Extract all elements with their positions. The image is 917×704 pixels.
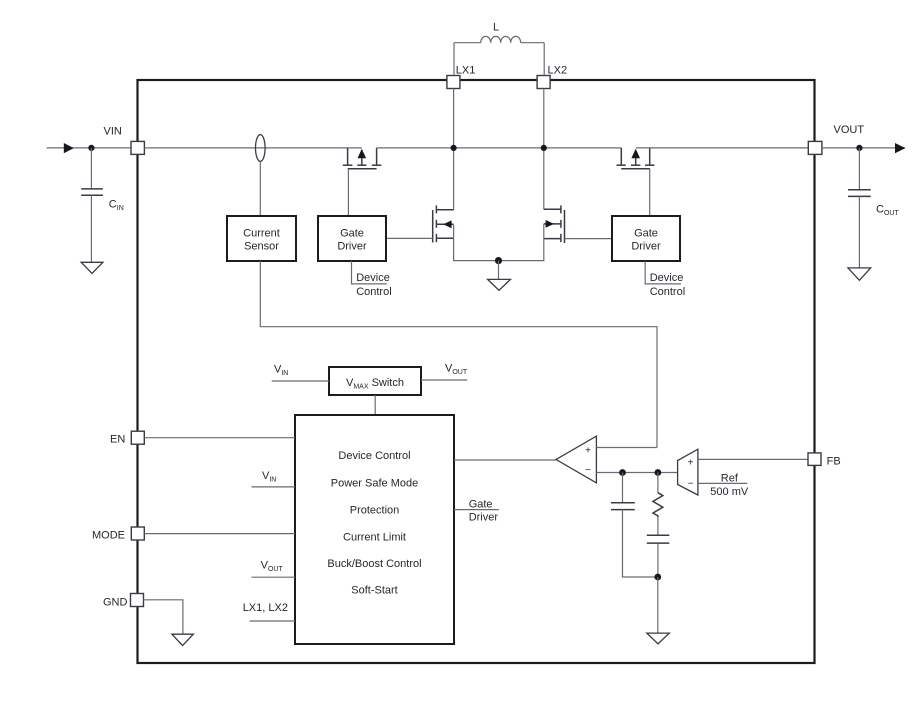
- svg-text:−: −: [688, 479, 694, 490]
- wire M3 gate to driver: [565, 238, 613, 240]
- svg-text:Buck/Boost Control: Buck/Boost Control: [327, 558, 421, 570]
- svg-text:L: L: [493, 22, 499, 34]
- node VOUT junction: [856, 145, 862, 151]
- wire main rail left segment: [144, 147, 361, 149]
- net VOUT to block: [251, 560, 295, 578]
- vmax switch U4: [329, 367, 421, 395]
- gate driver U3 right: [612, 216, 680, 261]
- svg-text:Driver: Driver: [469, 512, 499, 524]
- wire FB to reference amp: [698, 458, 808, 460]
- wire vmax to control block: [374, 395, 376, 415]
- svg-text:Ref: Ref: [721, 473, 739, 485]
- svg-text:Gate: Gate: [634, 228, 658, 240]
- wire LX1 drop: [453, 89, 455, 210]
- op-amp A2 reference: [678, 449, 698, 495]
- svg-text:Control: Control: [650, 286, 685, 298]
- wire MODE to block: [144, 533, 295, 535]
- pin LX2: [537, 76, 550, 89]
- wire M3 source down: [499, 224, 544, 261]
- transistor M1 high-side left: [343, 148, 382, 169]
- pin FB: [808, 453, 821, 466]
- wire rail right segment: [636, 147, 809, 149]
- svg-text:MODE: MODE: [92, 530, 125, 542]
- capacitor C1 comp: [611, 473, 658, 578]
- svg-text:Driver: Driver: [337, 241, 367, 253]
- wire VOUT output line: [822, 147, 905, 149]
- wire M2 source down: [454, 224, 499, 260]
- wire comp to ground: [657, 577, 659, 633]
- svg-text:Gate: Gate: [340, 228, 364, 240]
- ground CIN: [81, 262, 103, 273]
- pin VIN: [131, 141, 144, 154]
- svg-text:Current: Current: [243, 228, 280, 240]
- svg-text:Device: Device: [356, 272, 390, 284]
- net Gate Driver stub: [454, 498, 499, 523]
- svg-text:Device: Device: [650, 272, 684, 284]
- capacitor COUT: [848, 148, 899, 268]
- transistor M4 high-side right: [617, 148, 655, 169]
- svg-text:FB: FB: [827, 456, 841, 468]
- net VIN to block: [251, 470, 295, 487]
- node LX2 rail junction: [541, 145, 547, 151]
- svg-text:LX2: LX2: [548, 65, 568, 77]
- svg-text:Driver: Driver: [631, 241, 661, 253]
- control block U5: [295, 415, 454, 644]
- wire rail mid segment: [377, 147, 622, 149]
- net VOUT from vmax: [421, 363, 468, 381]
- ground center: [488, 261, 511, 291]
- node comp ground junction: [654, 574, 661, 581]
- svg-text:GND: GND: [103, 597, 128, 609]
- wire block output to error amp: [454, 459, 556, 461]
- current sensor U1: [227, 161, 296, 261]
- svg-text:LX1: LX1: [456, 65, 476, 77]
- wire M4 gate to driver: [649, 169, 651, 216]
- pin LX1: [447, 76, 460, 89]
- svg-text:+: +: [585, 446, 591, 457]
- op-amp A1 error amp: [556, 436, 596, 483]
- wire M2 gate from driver: [386, 237, 433, 239]
- node LX1 rail junction: [451, 145, 457, 151]
- node comp node 1: [619, 469, 626, 476]
- svg-text:VOUT: VOUT: [834, 124, 865, 136]
- node center ground junction: [495, 257, 502, 264]
- svg-text:VIN: VIN: [104, 126, 122, 138]
- net VIN to vmax: [272, 364, 329, 382]
- pin MODE: [131, 527, 144, 540]
- wire error amp plus input: [596, 447, 657, 449]
- ground COUT: [848, 268, 871, 280]
- wire M1 gate to driver: [347, 169, 349, 216]
- node comp node 2: [655, 469, 662, 476]
- wire current sensor to error amp: [260, 261, 657, 448]
- gate driver U2 left: [318, 216, 386, 261]
- current-sense ellipse: [255, 135, 265, 162]
- svg-text:Sensor: Sensor: [244, 241, 279, 253]
- svg-text:Protection: Protection: [350, 504, 400, 516]
- net Device Control right: [645, 261, 685, 298]
- svg-text:Device Control: Device Control: [338, 450, 410, 462]
- svg-text:−: −: [585, 465, 591, 476]
- wire LX2 drop: [543, 89, 545, 210]
- wire VIN input line: [47, 147, 131, 149]
- svg-text:LX1, LX2: LX1, LX2: [243, 602, 288, 614]
- transistor M3 low-side right: [544, 205, 565, 243]
- svg-text:EN: EN: [110, 434, 125, 446]
- wire error amp minus input: [596, 472, 677, 474]
- ground GND: [172, 634, 193, 645]
- svg-text:Soft-Start: Soft-Start: [351, 585, 397, 597]
- arrow VIN input: [64, 143, 74, 153]
- capacitor CIN: [81, 148, 124, 262]
- net LX1 LX2 to block: [243, 602, 295, 621]
- resistor R1 comp: [653, 473, 663, 518]
- transistor M2 low-side left: [433, 205, 454, 242]
- svg-text:Current Limit: Current Limit: [343, 531, 406, 543]
- capacitor C2 comp: [647, 517, 670, 577]
- pin VOUT: [808, 141, 822, 154]
- pin GND: [131, 594, 144, 607]
- svg-text:+: +: [688, 458, 694, 469]
- node VIN junction: [88, 145, 94, 151]
- svg-text:500 mV: 500 mV: [710, 486, 749, 498]
- ground comp: [647, 633, 670, 644]
- net Device Control left: [352, 261, 392, 298]
- pin EN: [131, 431, 144, 444]
- svg-text:Control: Control: [356, 286, 391, 298]
- net Ref 500mV: [698, 473, 749, 499]
- IC outer border: [138, 80, 815, 663]
- svg-text:Power Safe Mode: Power Safe Mode: [331, 477, 418, 489]
- wire GND to ground: [144, 600, 183, 634]
- wire EN to block: [144, 437, 295, 439]
- svg-text:Gate: Gate: [469, 498, 493, 510]
- inductor L: [454, 22, 544, 76]
- arrow VOUT output: [895, 143, 905, 153]
